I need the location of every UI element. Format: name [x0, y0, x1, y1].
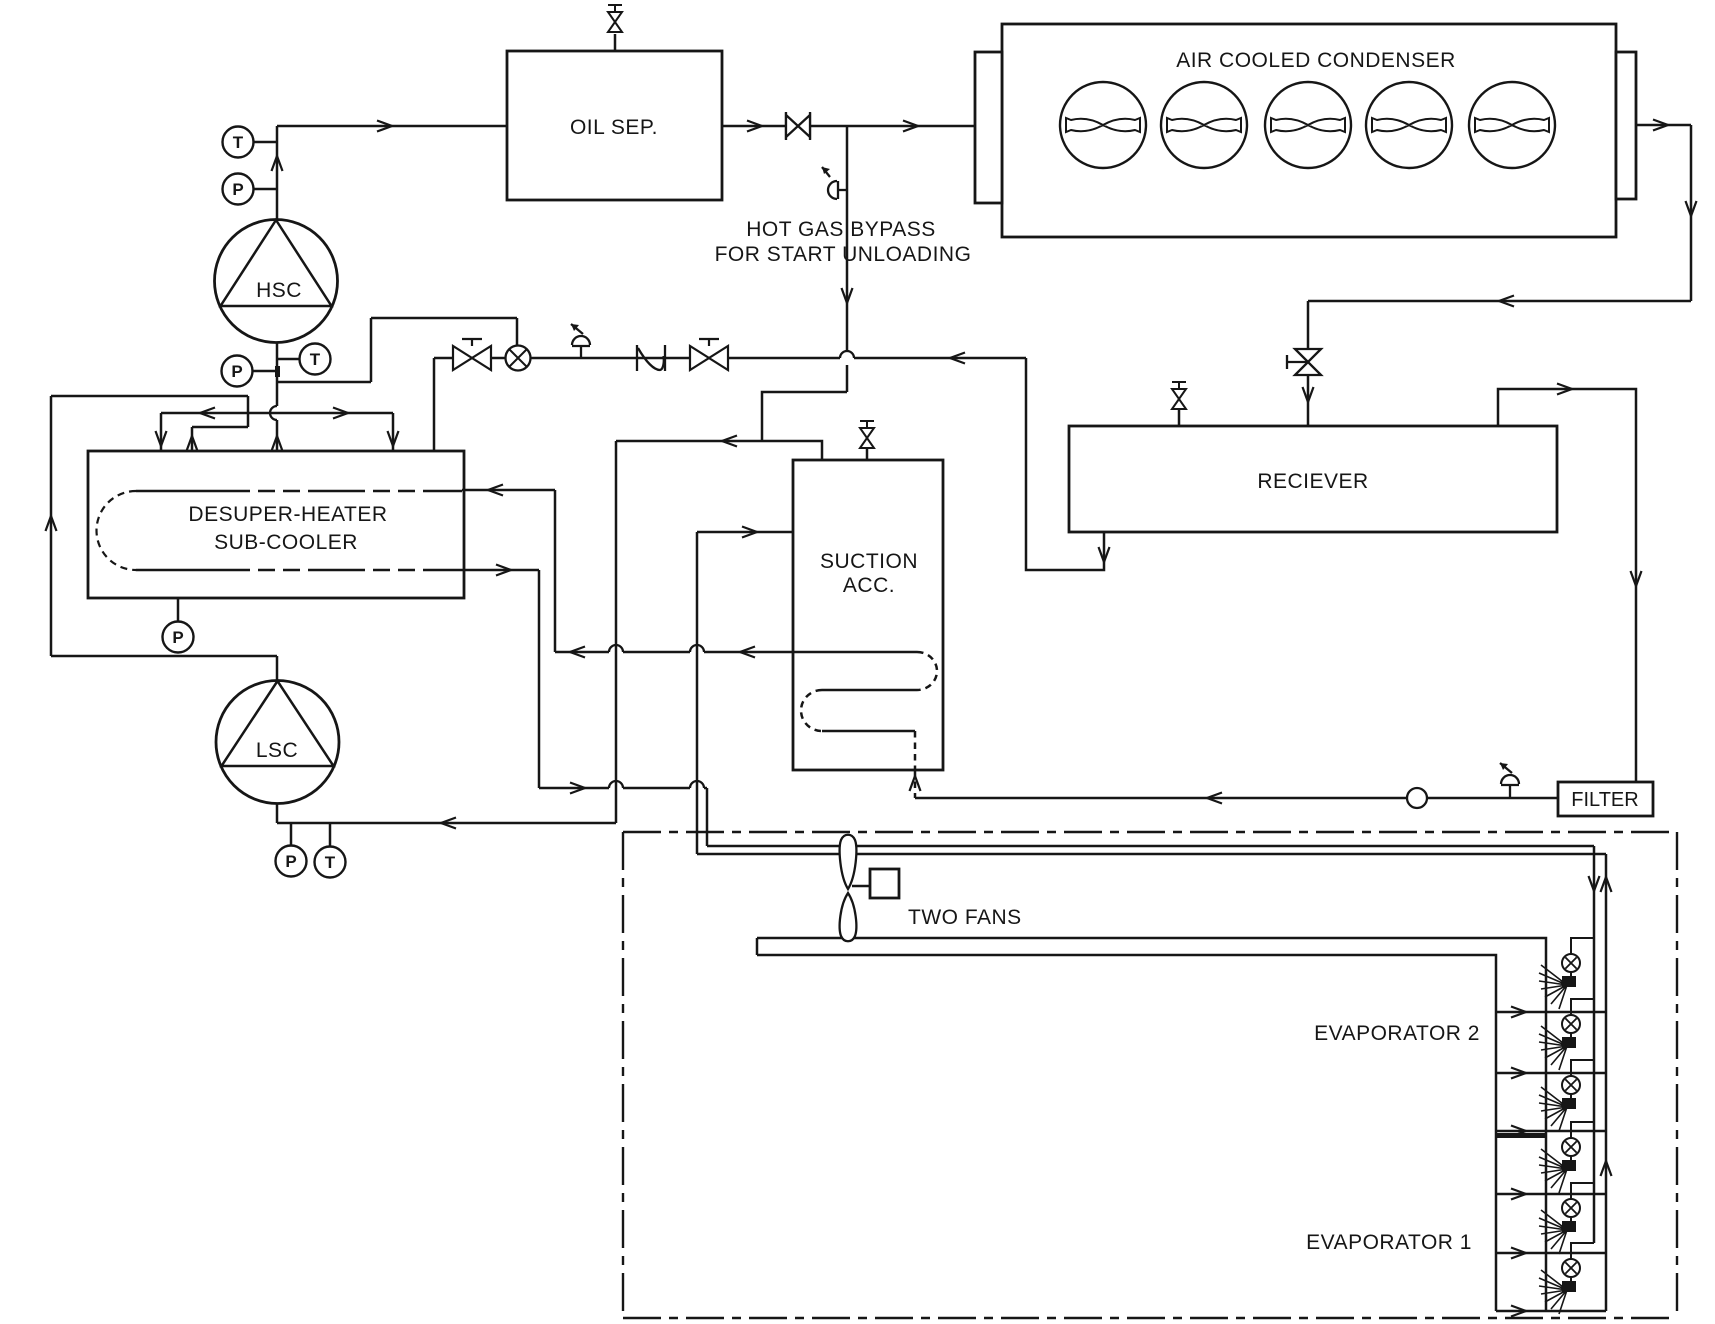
wire HSC suction from accumulator y652 — [555, 651, 793, 654]
arrow up into accumulator bottom — [910, 776, 921, 791]
compressor HSC — [215, 220, 338, 343]
gate valve on y358 — [453, 339, 491, 370]
tube bundle bottom line y570 — [136, 569, 462, 572]
crossover bump y788 over x616 — [609, 781, 623, 788]
wire condensate header y301 — [1308, 300, 1691, 303]
arrow left on filter return — [1207, 793, 1222, 804]
arrow right on header — [333, 408, 348, 419]
svg-text:P: P — [231, 362, 242, 381]
wire evaporator return into accumulator y532 — [697, 531, 793, 534]
wire header drop x161 — [160, 413, 163, 451]
evaporator section line 4 — [1496, 1193, 1606, 1196]
arrow down at x161 — [156, 431, 167, 446]
arrow up on suction riser mid — [1601, 1161, 1612, 1176]
wire receiver drain — [1026, 358, 1104, 570]
svg-text:DESUPER-HEATER: DESUPER-HEATER — [188, 503, 387, 526]
temperature gauge T discharge — [223, 127, 278, 158]
wire into exchanger y490 — [462, 489, 555, 492]
wire equalizer y382 — [277, 381, 371, 384]
arrow right on receiver outlet — [1557, 384, 1572, 395]
arrow down on right drop — [1686, 201, 1697, 216]
condenser fan 1 — [1060, 82, 1146, 168]
svg-text:T: T — [233, 133, 244, 152]
receiver vessel RECIEVER — [1069, 426, 1557, 532]
arrow left on suction header — [722, 436, 737, 447]
svg-text:RECIEVER: RECIEVER — [1257, 470, 1368, 493]
svg-text:T: T — [325, 853, 336, 872]
wire HSC suction drop x277 — [276, 343, 279, 451]
expansion valve unit 4 — [1539, 1122, 1594, 1193]
junction plug tick — [275, 366, 280, 377]
fan motor — [852, 885, 870, 888]
temperature gauge T suction — [277, 344, 331, 375]
compressor LSC — [216, 681, 339, 804]
suction accumulator box SUCTION ACC. — [793, 460, 943, 770]
arrow left on header — [200, 408, 215, 419]
arrow down into receiver — [1303, 387, 1314, 402]
svg-text:EVAPORATOR 2: EVAPORATOR 2 — [1314, 1022, 1480, 1045]
wire manifold zig y396 from left riser — [51, 396, 248, 451]
wire riser x555 — [554, 490, 557, 652]
fan mounting plate — [757, 938, 1546, 1311]
hot gas bypass drop x847 — [846, 126, 849, 392]
arrow left on y652 right — [740, 647, 755, 658]
arrow left on LSC suction — [441, 818, 456, 829]
arrow right on liquid feed — [570, 783, 585, 794]
arrow left on y358 — [950, 353, 965, 364]
wire suction outlet header y441 — [616, 441, 822, 460]
temperature gauge T LSC — [315, 823, 346, 878]
globe valve above receiver — [1287, 349, 1321, 375]
svg-text:ACC.: ACC. — [843, 574, 895, 597]
accumulator J-tube — [793, 652, 937, 770]
relief valve on suction accumulator — [860, 421, 874, 460]
svg-text:HSC: HSC — [256, 279, 302, 302]
svg-text:FILTER: FILTER — [1571, 789, 1638, 811]
expansion valve unit 6 — [1539, 1243, 1594, 1314]
heat exchanger DESUPER-HEATER SUB-COOLER — [88, 451, 464, 598]
three-way sight valve circle-X — [506, 346, 531, 371]
arrow left into exchanger — [488, 485, 503, 496]
wire hot gas jog to suction line — [762, 392, 847, 441]
arrow down on liquid riser — [1589, 876, 1600, 891]
arrow down hot gas — [842, 288, 853, 303]
wire right drop x1691 — [1690, 125, 1693, 301]
check valve on oil sep outlet — [786, 112, 810, 140]
wire header drop x393 — [392, 413, 395, 451]
crossover bump over hot-gas drop — [840, 351, 854, 358]
wire receiver top outlet — [1498, 389, 1636, 782]
crossover bump y788 over x697 — [690, 781, 704, 788]
wire accumulator bottom inlet — [914, 770, 917, 798]
evaporator section line 3 and divider — [1496, 1130, 1606, 1133]
pressure gauge P LSC — [276, 823, 307, 877]
svg-text:T: T — [310, 350, 321, 369]
arrow up on HSC discharge — [272, 156, 283, 171]
condenser fan 5 — [1469, 82, 1555, 168]
svg-text:HOT GAS BYPASS: HOT GAS BYPASS — [746, 218, 935, 241]
wire drop into three-way valve x517 — [516, 318, 519, 346]
wire liquid out of exchanger y570 to x539 — [462, 569, 539, 572]
svg-text:AIR COOLED CONDENSER: AIR COOLED CONDENSER — [1176, 49, 1456, 72]
check valve on y358 — [637, 345, 665, 371]
evaporator fan blades — [840, 835, 857, 942]
arrow right on discharge line — [377, 121, 392, 132]
arrow up at x192 — [187, 436, 198, 451]
arrow up into HSC suction — [272, 436, 283, 451]
wire oil sep outlet to condenser y126 — [722, 125, 975, 128]
condenser fan 4 — [1366, 82, 1452, 168]
wire left riser x51 — [50, 396, 53, 656]
cold room boundary dash-dot — [623, 832, 1677, 1318]
oil separator box OIL SEP. — [507, 51, 722, 200]
wire liquid drop x707 — [706, 788, 709, 846]
wire liquid/equalizing line y358 — [434, 357, 1026, 360]
arrow right into accumulator — [742, 527, 757, 538]
svg-text:P: P — [172, 628, 183, 647]
evaporator section line 5 — [1496, 1252, 1606, 1255]
svg-text:OIL SEP.: OIL SEP. — [570, 116, 658, 139]
pressure gauge P suction — [222, 356, 278, 387]
arrow right to condenser — [903, 121, 918, 132]
crossover bump y652 over x616 — [609, 645, 623, 652]
wire manifold header y413 — [161, 412, 393, 415]
relief valve on receiver — [1172, 382, 1186, 426]
svg-text:TWO FANS: TWO FANS — [908, 906, 1022, 929]
expansion valve unit 2 — [1539, 999, 1594, 1070]
wire evaporator suction riser x697 — [696, 532, 699, 854]
crossover bump y652 over x697 — [690, 645, 704, 652]
air cooled condenser box — [975, 24, 1636, 237]
wire LSC top riser — [276, 656, 279, 681]
evaporator section line 2 — [1496, 1072, 1606, 1075]
svg-text:SUCTION: SUCTION — [820, 550, 918, 573]
arrow right condenser outlet — [1653, 120, 1668, 131]
angle regulator on hot gas drop — [822, 167, 847, 199]
wire drop from valve row into exchanger x434 — [433, 358, 436, 451]
arrow right on y570 — [496, 565, 511, 576]
arrow left on y652 — [570, 647, 585, 658]
tube bundle top line y491 — [136, 490, 462, 493]
wire liquid feed y788 — [539, 787, 707, 790]
wire equalizer riser x371 — [370, 318, 373, 382]
filter drier FILTER — [1558, 782, 1653, 816]
condenser fan 2 — [1161, 82, 1247, 168]
evaporator section line 1 — [1496, 1011, 1606, 1014]
wire HSC top riser x277 — [276, 126, 279, 220]
svg-text:EVAPORATOR 1: EVAPORATOR 1 — [1306, 1231, 1472, 1254]
arrow down at x393 — [388, 431, 399, 446]
expansion valve unit 5 — [1539, 1183, 1594, 1254]
pressure gauge P subcooler — [163, 598, 194, 653]
pilot regulator on y358 — [571, 324, 590, 358]
expansion valve unit 1 — [1539, 938, 1594, 1009]
suction riser x1606 — [1605, 854, 1608, 1311]
wire drop to receiver x1308 — [1307, 301, 1310, 426]
wire liquid supply y846 — [707, 845, 1594, 848]
arrow up on left riser — [46, 516, 57, 531]
tube bundle stadium cap — [97, 491, 137, 570]
wire liquid drop x539 — [538, 570, 541, 788]
arrow left on condensate header — [1499, 296, 1514, 307]
wire filter return line y798 — [915, 797, 1558, 800]
wire HSC discharge to oil separator y126 — [277, 125, 507, 128]
angle regulator near filter — [1500, 763, 1519, 798]
crossover bump on suction drop — [270, 406, 277, 420]
gate valve 2 on y358 — [690, 339, 728, 370]
svg-text:FOR START UNLOADING: FOR START UNLOADING — [715, 243, 972, 266]
wire suction return y854 — [697, 853, 1606, 856]
relief valve on oil separator — [608, 5, 622, 51]
sight glass on return line — [1407, 788, 1427, 808]
wire LSC suction drop — [276, 803, 279, 823]
expansion valve unit 3 — [1539, 1060, 1594, 1131]
arrow down on liquid drop x1636 — [1631, 571, 1642, 586]
arrow right before check valve — [747, 121, 762, 132]
condenser fan 3 — [1265, 82, 1351, 168]
wire LSC suction line y823 — [277, 822, 616, 825]
wire suction drop x616 to LSC — [615, 441, 618, 823]
wire equalizer top y318 — [371, 317, 517, 320]
svg-text:SUB-COOLER: SUB-COOLER — [214, 531, 358, 554]
arrow down on receiver drain — [1099, 547, 1110, 562]
liquid riser to TXVs x1594 — [1593, 846, 1596, 1243]
wire condenser outlet to right drop — [1636, 124, 1691, 127]
wire subcooler left outlet y656 — [51, 655, 277, 658]
svg-text:LSC: LSC — [256, 739, 298, 762]
evaporator bottom line — [1496, 1310, 1606, 1313]
arrow up on suction riser top — [1601, 877, 1612, 892]
svg-text:P: P — [232, 180, 243, 199]
pressure gauge P discharge — [223, 174, 278, 205]
svg-text:P: P — [285, 852, 296, 871]
